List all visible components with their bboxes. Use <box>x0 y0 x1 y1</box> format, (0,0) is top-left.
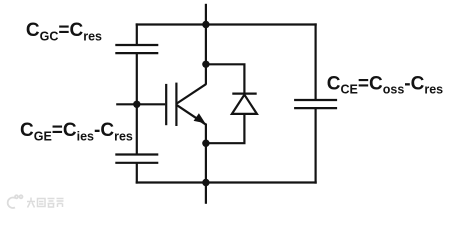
node: bottom junction dot <box>202 179 209 186</box>
wire: left rail upper segment <box>136 23 138 45</box>
wire: middle rail, top node down to collector corner <box>205 25 207 85</box>
diode D1: triangle (anode, pointing up) <box>232 95 257 114</box>
watermark logo (bottom left, faint) <box>8 195 23 208</box>
wire: bottom horizontal rail (emitter net) <box>136 181 317 183</box>
wire: bottom stub below node <box>205 183 207 204</box>
transistor Q1: IGBT collector diagonal <box>176 84 206 104</box>
wire: left rail middle segment <box>136 53 138 154</box>
label: CCE=Coss-Cres <box>327 73 443 96</box>
wire: middle rail, emitter corner down to bottom node <box>205 124 207 183</box>
transistor Q1: IGBT body bar <box>175 83 177 126</box>
wire: top stub above node <box>205 4 207 25</box>
capacitor CGE (bottom left) <box>115 155 158 163</box>
node: emitter junction dot <box>202 140 209 147</box>
node: gate junction dot on left rail <box>133 101 140 108</box>
diode D1: cathode bar <box>232 92 256 94</box>
wire: diode branch bottom (diode to emitter node) <box>206 114 245 143</box>
wire: gate lead (left stub through node to gate bar) <box>116 103 165 105</box>
label: CGC=Cres <box>26 20 102 43</box>
node: collector junction dot <box>202 61 209 68</box>
label: CGE=Cies-Cres <box>20 120 133 143</box>
transistor Q1: IGBT emitter diagonal <box>176 105 206 125</box>
transistor Q1: IGBT gate bar <box>165 84 167 125</box>
watermark text glyph blobs (bottom left, faint) <box>27 198 64 208</box>
wire: diode branch top (node to diode top) <box>206 64 245 93</box>
svg-text:CCE=Coss-Cres: CCE=Coss-Cres <box>327 73 443 96</box>
svg-text:CGC=Cres: CGC=Cres <box>26 20 102 43</box>
svg-text:CGE=Cies-Cres: CGE=Cies-Cres <box>20 120 133 143</box>
wire: right rail upper segment <box>315 23 317 100</box>
wire: right rail lower segment <box>315 108 317 184</box>
capacitor CCE (right) <box>294 100 337 108</box>
transistor Q1: emitter arrowhead <box>194 113 206 123</box>
node: top junction dot <box>202 21 209 28</box>
wire: top horizontal rail (collector net) <box>136 23 317 25</box>
wire: left rail lower segment <box>136 163 138 184</box>
capacitor CGC (top left) <box>115 45 158 53</box>
